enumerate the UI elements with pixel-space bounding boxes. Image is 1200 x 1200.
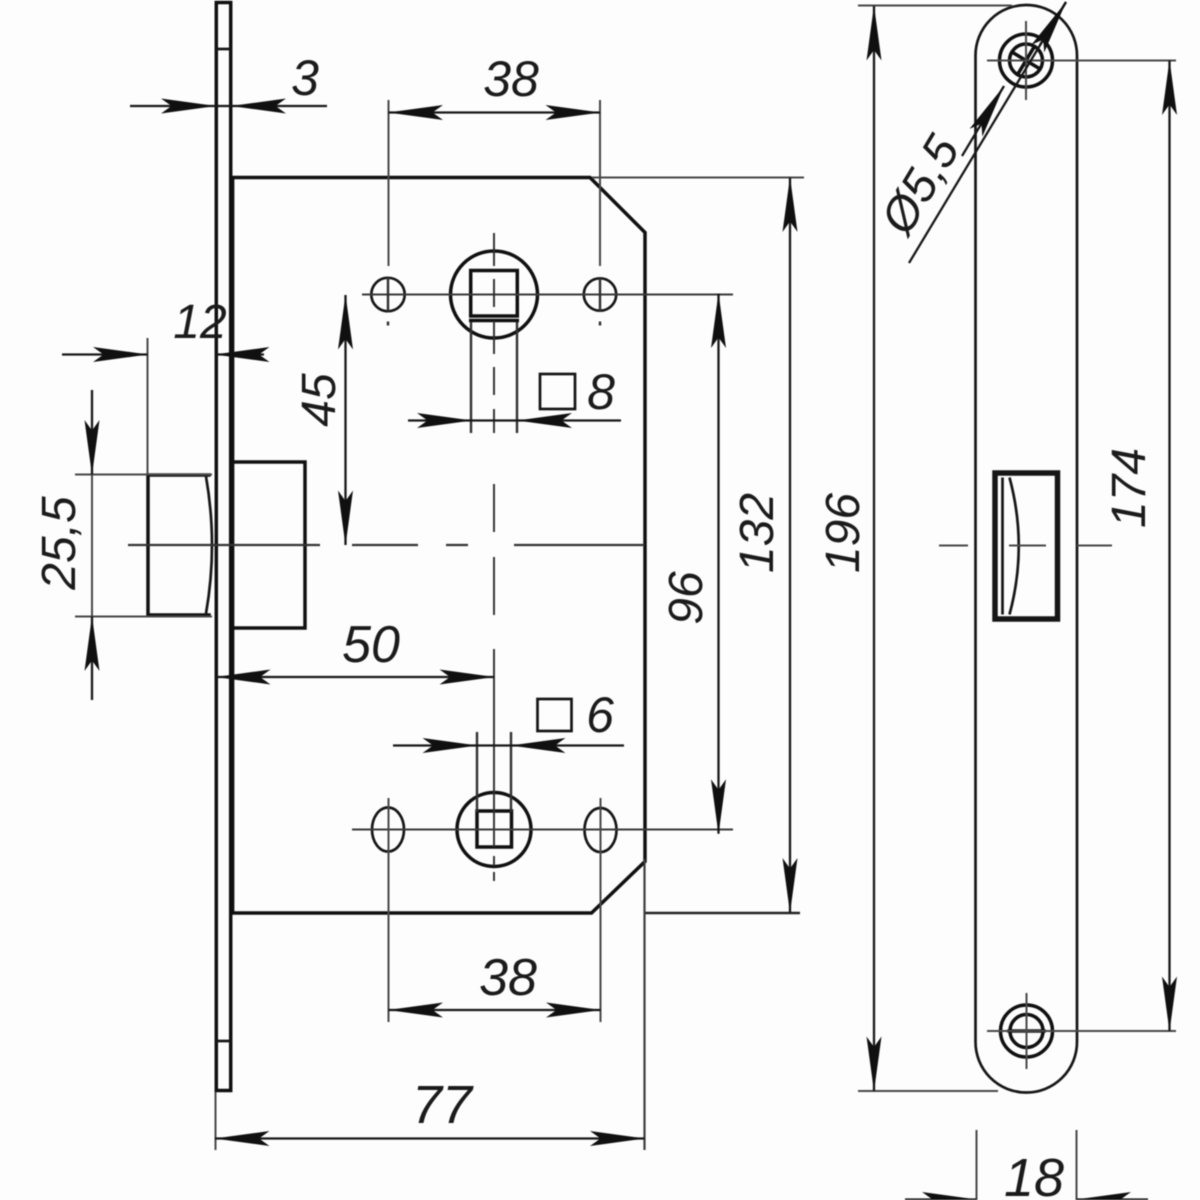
screw bottom inner: [1010, 1015, 1043, 1048]
extension line body bottom right: [644, 912, 800, 915]
centerline right view: [939, 545, 1112, 547]
lock body outline: [233, 178, 645, 914]
dimension 196: [817, 6, 874, 1091]
screw hole top-right: [584, 278, 616, 310]
extension line bottom-left hole vertical: [388, 798, 390, 1022]
screw hole top-left: [371, 278, 404, 311]
screw bottom crosshair: [987, 993, 1176, 1069]
screw top inner: [1010, 44, 1043, 77]
dimension 18: [905, 1148, 1148, 1200]
screw bottom slot: [1009, 1029, 1044, 1033]
extension line top 38 left: [388, 100, 390, 266]
dimension 38 top: [389, 51, 601, 113]
svg-text:18: 18: [1004, 1148, 1064, 1200]
dimension 38 bottom: [389, 949, 601, 1010]
extension line 196 bottom: [858, 1090, 998, 1092]
dimension 132: [731, 178, 790, 913]
svg-text:8: 8: [587, 364, 615, 420]
svg-text:96: 96: [660, 571, 713, 625]
latch bolt: [148, 475, 212, 615]
striker faceplate side view: [976, 5, 1078, 1093]
dimension 45: [293, 295, 346, 545]
centerline horizontal bottom holes: [352, 828, 733, 830]
screw bottom outer: [1001, 1005, 1053, 1057]
faceplate break line top: [216, 48, 231, 51]
svg-text:3: 3: [291, 50, 319, 106]
extension lines 18: [977, 1130, 1077, 1200]
extension line 25.5 bottom: [75, 616, 212, 618]
extension line body top right: [592, 177, 804, 179]
dimension 25,5 latch height: [33, 390, 92, 700]
hub square bottom: [477, 811, 512, 847]
extension line 196 top: [858, 5, 1012, 7]
extension line bottom-right hole vertical: [600, 798, 602, 1022]
extension line 12: [147, 338, 149, 475]
dimension 50 backset: [216, 616, 494, 677]
dimension square 8: [408, 364, 621, 421]
svg-text:38: 38: [479, 949, 537, 1007]
extension lines hub square bottom: [477, 732, 511, 812]
screw top phillips cross: [1014, 49, 1038, 72]
hub square top: [471, 271, 518, 321]
extension line 77 left: [215, 1092, 217, 1150]
svg-text:38: 38: [483, 51, 539, 107]
centerline horizontal top holes: [362, 293, 733, 295]
screw top outer: [1000, 34, 1053, 87]
faceplate break mark bottom: [216, 1040, 231, 1043]
svg-text:50: 50: [342, 616, 400, 674]
dimension diameter 5,5 leader: [870, 2, 1066, 263]
oval hole bottom-right: [585, 808, 617, 852]
crosshair tick top-right hole: [599, 277, 601, 312]
extension line 25.5 top: [75, 474, 212, 476]
faceplate front strip: [216, 3, 231, 1091]
hub circle bottom (WC spindle): [457, 793, 531, 867]
svg-text:196: 196: [817, 493, 870, 573]
centerline horizontal middle: [128, 544, 645, 546]
latch housing box: [233, 462, 305, 628]
extension line 77 right: [643, 859, 645, 1150]
svg-text:132: 132: [731, 493, 784, 573]
svg-text:174: 174: [1103, 448, 1156, 528]
dimension 174: [1103, 61, 1170, 1032]
dimension 77: [215, 1075, 645, 1139]
svg-text:45: 45: [293, 373, 346, 427]
dimension square 6: [393, 687, 624, 746]
oval hole bottom-left: [372, 808, 404, 852]
extension lines hub square top: [471, 322, 517, 433]
svg-text:6: 6: [586, 687, 614, 743]
screw top crosshair: [987, 21, 1176, 100]
crosshair tick top-left hole: [387, 277, 389, 312]
dimension 96: [660, 294, 719, 834]
latch bolt seen in hole: [1003, 478, 1019, 615]
latch hole side view: [995, 473, 1058, 619]
dimension 12 latch protrusion: [62, 296, 264, 355]
svg-text:12: 12: [173, 296, 226, 349]
svg-text:77: 77: [412, 1075, 474, 1135]
svg-text:25,5: 25,5: [33, 496, 86, 591]
hub circle top (spindle): [451, 251, 538, 338]
centerline vertical spindle: [493, 233, 495, 881]
dimension 3 faceplate thickness: [130, 50, 327, 106]
extension line top 38 right: [599, 100, 601, 266]
